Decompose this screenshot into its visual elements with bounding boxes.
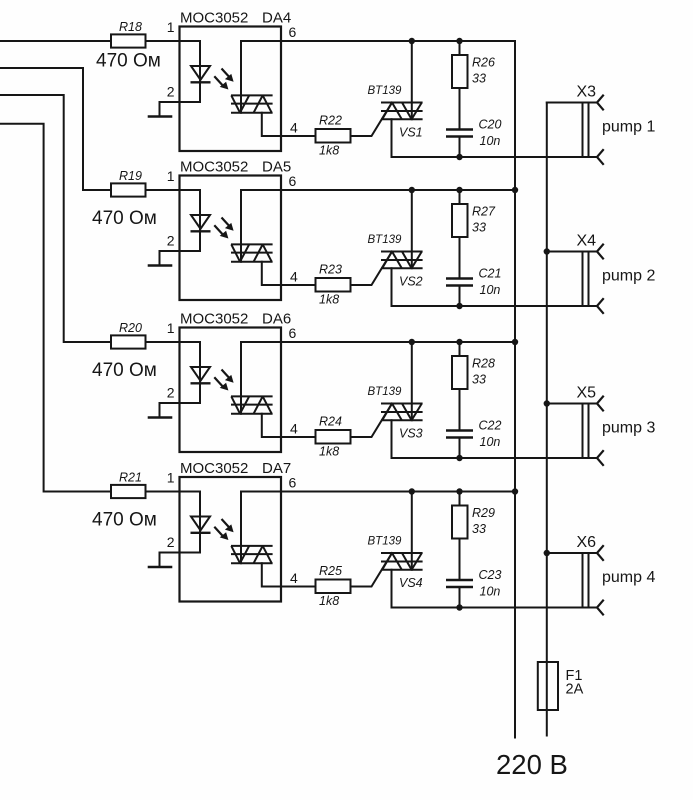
svg-text:6: 6 [289,325,297,341]
svg-text:pump 3: pump 3 [602,420,655,437]
photo-triac inside opto [231,396,273,413]
svg-text:R29: R29 [472,506,495,520]
wire pin2 internal + external to ground [160,553,201,568]
photo-triac inside opto [231,244,273,261]
svg-text:VS2: VS2 [399,275,423,289]
resistor R25 1k8 gate [316,564,351,608]
svg-text:1: 1 [167,168,175,184]
svg-text:4: 4 [290,421,298,437]
wire triac T1 output [392,268,598,306]
node: snubber/output junction [456,455,462,461]
wire left 220V rail [514,41,516,738]
svg-text:X5: X5 [577,385,597,402]
svg-text:BT139: BT139 [368,386,402,398]
contact fork top [597,397,603,411]
svg-text:4: 4 [290,570,298,586]
wire pin 4 out [281,135,316,137]
wire [459,237,461,278]
wire photo-triac to pin 4 [262,414,281,437]
svg-text:R18: R18 [119,20,142,34]
ground [149,416,171,419]
wire [146,491,180,493]
svg-text:X6: X6 [577,534,597,551]
svg-text:1k8: 1k8 [319,445,339,459]
capacitor C20 10n snubber [446,118,501,149]
svg-text:470 Ом: 470 Ом [92,360,157,381]
contact fork bottom [597,601,603,615]
LED emitter inside opto [191,66,211,82]
photo-triac inside opto [231,546,273,563]
wire photo-triac to pin 6 [241,492,281,564]
wire X3 top contact to right rail [547,102,597,104]
wire X5 top contact to right rail [547,403,597,405]
node: top rail to left 220V rail [512,339,518,345]
svg-text:DA4: DA4 [262,10,291,27]
svg-text:pump 2: pump 2 [602,268,655,285]
LED emitter inside opto [191,367,211,383]
svg-text:10n: 10n [480,134,501,148]
wire gate [351,553,393,587]
wire pin2 internal + external to ground [160,102,201,117]
svg-text:33: 33 [472,221,486,235]
op-amp U opto DA4 MOC3052 box [180,10,292,152]
svg-text:33: 33 [472,522,486,536]
svg-text:VS4: VS4 [399,576,423,590]
wire [459,389,461,430]
svg-text:C20: C20 [479,118,502,132]
svg-text:X4: X4 [577,233,597,250]
contact fork bottom [597,299,603,313]
wire [459,88,461,129]
node: triac/top-rail junction [409,38,415,44]
op-amp U opto DA7 MOC3052 box [180,460,292,602]
wire X6 top contact to right rail [547,552,597,554]
wire [459,539,461,580]
svg-text:MOC3052: MOC3052 [180,311,248,328]
svg-text:1k8: 1k8 [319,293,339,307]
svg-text:R20: R20 [119,321,142,335]
op-amp U opto DA6 MOC3052 box [180,311,292,453]
svg-text:BT139: BT139 [368,536,402,548]
node: connector top contact to right rail [544,248,550,254]
svg-text:6: 6 [289,475,297,491]
wire gate [351,103,393,137]
svg-text:2: 2 [167,534,175,550]
wire pin6 top rail [281,189,515,191]
contact fork top [597,245,603,259]
wire photo-triac to pin 6 [241,342,281,414]
svg-text:MOC3052: MOC3052 [180,10,248,27]
svg-text:2: 2 [167,385,175,401]
svg-text:R25: R25 [319,564,342,578]
wire [146,189,180,191]
wire pin 4 out [281,284,316,286]
svg-text:DA6: DA6 [262,311,291,328]
wire pin 4 out [281,586,316,588]
wire pin1 internal [180,41,201,102]
svg-text:VS1: VS1 [399,126,423,140]
svg-text:MOC3052: MOC3052 [180,460,248,477]
svg-text:R21: R21 [119,471,142,485]
wire pin6 top rail [281,341,515,343]
svg-text:R24: R24 [319,415,342,429]
svg-text:R22: R22 [319,114,342,128]
wire right 220V rail (fused) [546,103,548,736]
resistor R26 33 snubber [452,41,495,88]
wire photo-triac to pin 4 [262,563,281,586]
light arrows [214,370,233,391]
wire triac T1 output [392,570,598,608]
photo-triac inside opto [231,95,273,112]
svg-text:6: 6 [289,173,297,189]
svg-text:R26: R26 [472,56,495,70]
node: connector top contact to right rail [544,400,550,406]
node: connector top contact to right rail [544,550,550,556]
node: snubber/top-rail junction [456,339,462,345]
ground [149,115,171,118]
node: snubber/output junction [456,303,462,309]
svg-text:6: 6 [289,24,297,40]
fuse F1 2A [538,662,584,710]
svg-text:1: 1 [167,320,175,336]
op-amp U opto DA5 MOC3052 box [180,159,292,301]
transistor VS3 triac BT139 [368,386,423,441]
contact fork bottom [597,150,603,164]
node: triac/top-rail junction [409,488,415,494]
svg-text:4: 4 [290,120,298,136]
svg-text:33: 33 [472,373,486,387]
capacitor C22 10n snubber [446,419,501,450]
wire photo-triac to pin 6 [241,190,281,262]
resistor R22 1k8 gate [316,114,351,158]
light arrows [214,519,233,540]
wire triac T2 to top rail [411,342,413,420]
resistor R27 33 snubber [452,190,496,237]
svg-text:VS3: VS3 [399,427,423,441]
svg-text:1k8: 1k8 [319,144,339,158]
svg-text:10n: 10n [480,435,501,449]
svg-text:2: 2 [167,233,175,249]
node: top rail to left 220V rail [512,488,518,494]
connector X3 [577,84,597,158]
transistor VS4 triac BT139 [368,536,423,591]
resistor R28 33 snubber [452,342,495,389]
resistor R21 470 Ohm [92,471,157,531]
wire pin6 top rail [281,40,515,42]
wire [459,438,461,459]
svg-text:R27: R27 [472,205,496,219]
resistor R23 1k8 gate [316,263,351,307]
wire pin2 internal + external to ground [160,251,201,266]
resistor R20 470 Ohm [92,321,157,381]
node: snubber/output junction [456,154,462,160]
ground [149,566,171,569]
wire X4 top contact to right rail [547,251,597,253]
svg-text:pump 4: pump 4 [602,569,655,586]
wire [459,137,461,158]
svg-text:2A: 2A [566,682,584,698]
svg-text:10n: 10n [480,283,501,297]
svg-text:C23: C23 [479,568,502,582]
wire triac T1 output [392,119,598,157]
wire input net 2 from left edge to R19 [0,68,111,190]
contact fork bottom [597,451,603,465]
wire photo-triac to pin 6 [241,41,281,113]
light arrows [214,69,233,90]
wire [146,40,180,42]
wire pin6 top rail [281,491,515,493]
node: top rail to left 220V rail [512,187,518,193]
svg-text:BT139: BT139 [368,85,402,97]
svg-text:X3: X3 [577,84,597,101]
wire gate [351,252,393,286]
wire triac T2 to top rail [411,190,413,268]
LED emitter inside opto [191,517,211,533]
wire pin1 internal [180,492,201,553]
wire photo-triac to pin 4 [262,262,281,285]
svg-text:4: 4 [290,269,298,285]
wire triac T2 to top rail [411,41,413,119]
wire pin1 internal [180,342,201,403]
svg-text:470 Ом: 470 Ом [92,510,157,531]
wire [146,341,180,343]
svg-text:R19: R19 [119,169,142,183]
svg-text:R23: R23 [319,263,342,277]
svg-text:DA5: DA5 [262,159,291,176]
connector X5 [577,385,597,459]
svg-text:R28: R28 [472,357,495,371]
resistor R18 470 Ohm [96,20,161,72]
wire triac T1 output [392,420,598,458]
resistor R29 33 snubber [452,492,495,539]
light arrows [214,218,233,239]
svg-text:C22: C22 [479,419,502,433]
wire input net 1 from left edge to R18 [0,40,111,42]
svg-text:pump 1: pump 1 [602,119,655,136]
svg-text:1k8: 1k8 [319,594,339,608]
connector X6 [577,534,597,608]
svg-text:1: 1 [167,470,175,486]
wire [459,286,461,307]
wire pin2 internal + external to ground [160,403,201,418]
svg-text:220 В: 220 В [496,749,568,780]
resistor R19 470 Ohm [92,169,157,229]
svg-text:470 Ом: 470 Ом [92,208,157,229]
wire [459,587,461,608]
svg-text:DA7: DA7 [262,460,291,477]
svg-text:10n: 10n [480,585,501,599]
node: snubber/top-rail junction [456,187,462,193]
capacitor C21 10n snubber [446,267,501,298]
capacitor C23 10n snubber [446,568,501,599]
contact fork top [597,96,603,110]
connector X4 [577,233,597,307]
svg-text:33: 33 [472,72,486,86]
ground [149,264,171,267]
node: snubber/top-rail junction [456,38,462,44]
wire input net 4 from left edge to R21 [0,124,111,492]
node: triac/top-rail junction [409,339,415,345]
LED emitter inside opto [191,215,211,231]
wire pin 4 out [281,436,316,438]
node: triac/top-rail junction [409,187,415,193]
transistor VS1 triac BT139 [368,85,423,140]
wire gate [351,404,393,438]
wire triac T2 to top rail [411,492,413,570]
svg-text:BT139: BT139 [368,234,402,246]
svg-text:470 Ом: 470 Ом [96,51,161,72]
node: snubber/output junction [456,604,462,610]
contact fork top [597,546,603,560]
wire pin1 internal [180,190,201,251]
svg-text:MOC3052: MOC3052 [180,159,248,176]
node: snubber/top-rail junction [456,488,462,494]
wire photo-triac to pin 4 [262,113,281,136]
resistor R24 1k8 gate [316,415,351,459]
svg-text:1: 1 [167,19,175,35]
transistor VS2 triac BT139 [368,234,423,289]
wire input net 3 from left edge to R20 [0,95,111,342]
svg-text:2: 2 [167,84,175,100]
svg-text:C21: C21 [479,267,502,281]
